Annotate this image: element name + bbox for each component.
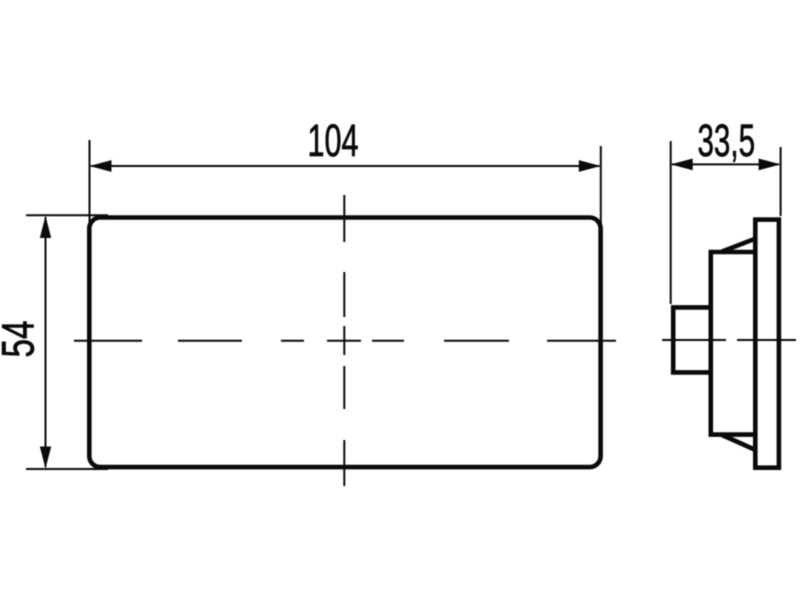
dimension 104 arrow right [579,160,601,172]
dimension 104 arrow left [90,160,112,172]
dimension 33,5 extension line left [670,141,672,304]
dimension 33,5 extension line right [780,147,782,216]
dimension 33,5 arrow left [671,159,693,171]
side view mounting block [673,307,711,372]
front view vertical centerline [343,195,345,486]
dimension 33,5 arrow right [759,159,781,171]
dimension 104 extension line right [600,146,602,226]
dimension 54 arrow bottom [40,447,51,469]
dimension 54 arrow top [40,216,51,238]
svg-text:54: 54 [0,321,44,358]
dimension 104 extension line left [89,140,91,226]
svg-text:33,5: 33,5 [698,115,756,166]
side view top clip wedge [722,239,755,252]
front view lamp outline [89,218,600,468]
dimension 33,5 line [672,163,779,165]
svg-text:104: 104 [308,115,359,166]
side view lens outline [755,220,779,468]
side view bottom clip wedge [722,435,755,450]
side view housing body [711,252,753,435]
dimension 104 line [91,165,600,167]
side view centerline [662,339,796,341]
front view horizontal centerline [74,340,616,342]
dimension 54 line [45,217,47,467]
dimension 54 extension line top [26,214,108,216]
dimension 54 extension line bottom [26,468,108,470]
